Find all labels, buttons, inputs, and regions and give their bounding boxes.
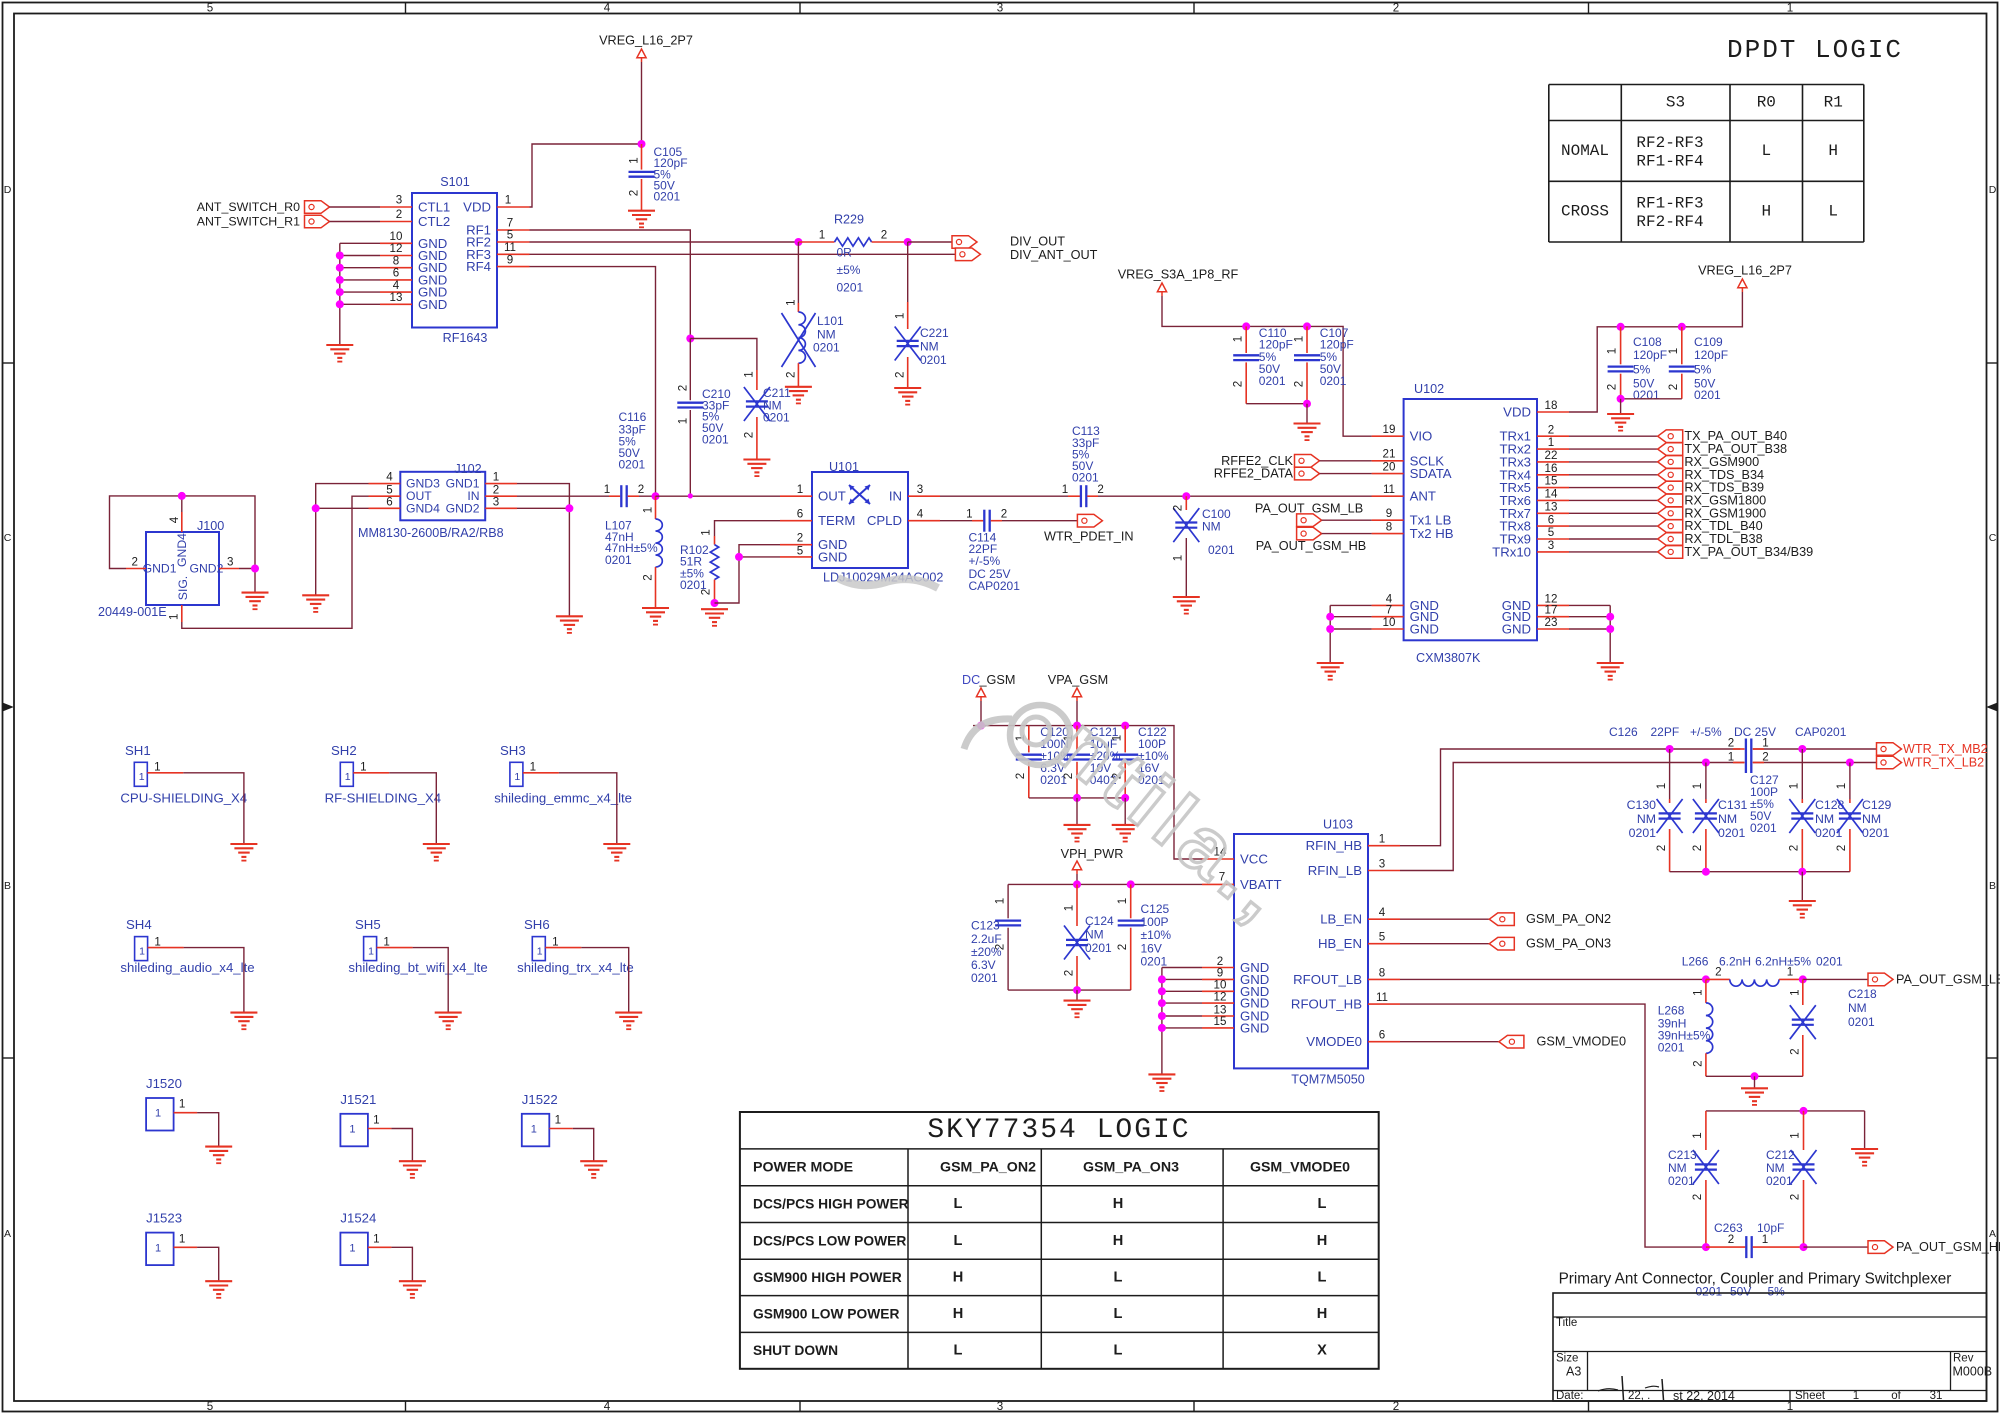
wire Tx1 LB <box>1322 519 1372 521</box>
svg-text:VREG_L16_2P7: VREG_L16_2P7 <box>1698 264 1792 278</box>
power VREG_L16_2P7 (right) <box>1698 264 1792 293</box>
ground U102 left <box>1317 663 1344 680</box>
svg-text:10: 10 <box>1383 616 1396 629</box>
svg-text:H: H <box>953 1306 964 1322</box>
svg-text:SDATA: SDATA <box>1410 466 1452 481</box>
svg-text:0201: 0201 <box>1766 1174 1793 1188</box>
capacitor C110 <box>1232 326 1293 404</box>
junction R229 pin2 <box>904 238 912 246</box>
svg-text:RX_TDL_B40: RX_TDL_B40 <box>1684 519 1762 533</box>
svg-text:0201: 0201 <box>605 553 632 567</box>
capacitor C105 <box>628 144 688 211</box>
svg-text:NM: NM <box>1862 812 1881 826</box>
svg-text:NM: NM <box>1668 1161 1687 1175</box>
wire J1524 <box>391 1247 412 1281</box>
svg-text:L: L <box>1318 1270 1327 1286</box>
svg-text:PA_OUT_GSM_HB: PA_OUT_GSM_HB <box>1896 1240 2000 1254</box>
junction node VDD/C105 <box>638 140 646 148</box>
svg-text:TX_PA_OUT_B34/B39: TX_PA_OUT_B34/B39 <box>1684 545 1813 559</box>
svg-text:10pF: 10pF <box>1757 1221 1784 1235</box>
svg-text:J1524: J1524 <box>340 1211 376 1226</box>
svg-text:GND2: GND2 <box>190 562 224 576</box>
svg-text:4: 4 <box>168 516 181 523</box>
connector tag RX_TDL_B38 <box>1658 532 1763 546</box>
wire C108/C109 bottom <box>1621 398 1682 400</box>
svg-text:2: 2 <box>1606 384 1619 390</box>
wire upper rail right <box>1733 748 1877 750</box>
svg-text:12: 12 <box>1214 990 1227 1003</box>
svg-text:SH3: SH3 <box>500 743 526 758</box>
ground L268/C218 <box>1741 1088 1768 1105</box>
svg-text:2: 2 <box>1393 2 1399 15</box>
svg-text:1: 1 <box>966 507 972 520</box>
connector J1524 <box>340 1211 391 1266</box>
svg-text:NM: NM <box>1202 520 1221 534</box>
svg-text:6: 6 <box>1548 513 1554 526</box>
svg-text:CAP0201: CAP0201 <box>1795 725 1847 739</box>
svg-text:J1520: J1520 <box>146 1076 182 1091</box>
ground SH5 <box>435 1013 462 1030</box>
svg-text:R1: R1 <box>1824 94 1843 112</box>
svg-text:0201: 0201 <box>1633 388 1660 402</box>
svg-text:Tx2 HB: Tx2 HB <box>1410 526 1454 541</box>
wire TRx8 <box>1569 525 1658 527</box>
svg-text:NM: NM <box>1637 812 1656 826</box>
svg-text:J102: J102 <box>454 462 481 476</box>
svg-text:2: 2 <box>1116 944 1129 950</box>
svg-text:2: 2 <box>396 208 402 221</box>
ground C123-C125 <box>1064 1001 1091 1018</box>
svg-text:120pF: 120pF <box>1694 348 1728 362</box>
connector tag WTR_TX_LB2 <box>1877 756 1985 770</box>
svg-text:SH1: SH1 <box>125 743 151 758</box>
svg-text:GND: GND <box>1410 622 1439 637</box>
junction C213 bottom <box>1702 1243 1710 1251</box>
svg-text:2: 2 <box>881 229 887 242</box>
wire C113 to ANT <box>1098 495 1372 497</box>
shield connector SH1 <box>125 743 183 787</box>
wire VDD rail <box>1569 292 1742 412</box>
svg-text:8: 8 <box>1386 521 1392 534</box>
capacitor C127 100P (series) <box>1728 751 1779 836</box>
svg-text:5: 5 <box>207 1400 213 1413</box>
svg-text:2: 2 <box>1001 507 1007 520</box>
svg-text:NM: NM <box>1848 1001 1867 1015</box>
capacitor C210 <box>677 339 732 496</box>
svg-text:0201: 0201 <box>619 458 646 472</box>
resistor R229 0R <box>798 213 907 295</box>
ground U103 <box>1148 1074 1175 1091</box>
ground C121 <box>1064 825 1091 842</box>
wire RFFE2_CLK <box>1320 460 1372 462</box>
svg-text:2: 2 <box>785 372 798 378</box>
svg-text:U102: U102 <box>1414 382 1444 396</box>
wire IN to C113 <box>940 495 1068 497</box>
connector J100 20449-001E <box>98 512 239 622</box>
capacitor C263 10pF <box>1696 1221 1804 1299</box>
svg-text:0201: 0201 <box>1658 1041 1685 1055</box>
ground C110/C107 <box>1294 424 1321 441</box>
svg-text:11: 11 <box>1376 991 1388 1004</box>
svg-text:SH2: SH2 <box>331 743 357 758</box>
power VREG_L16_2P7 (left) <box>599 34 693 63</box>
shield connector SH5 <box>355 917 413 961</box>
svg-text:9: 9 <box>1386 507 1392 520</box>
svg-text:1: 1 <box>628 157 641 163</box>
junction C110 <box>1242 322 1250 330</box>
wire RFIN_LB <box>1400 763 1744 871</box>
svg-text:U101: U101 <box>829 460 859 474</box>
wire J1520 <box>197 1113 219 1147</box>
svg-text:14: 14 <box>1545 488 1558 501</box>
svg-text:RFFE2_DATA: RFFE2_DATA <box>1214 467 1294 481</box>
wire RF2 to R229 <box>530 241 799 243</box>
connector tag RFFE2_DATA <box>1214 467 1320 481</box>
connector tag PA_OUT_GSM_LB (U102) <box>1255 502 1363 527</box>
capacitor C100 NM <box>1172 496 1236 597</box>
svg-text:2: 2 <box>1393 1400 1399 1413</box>
svg-text:2: 2 <box>1692 1060 1705 1066</box>
wire LB_EN <box>1400 918 1489 920</box>
svg-text:2: 2 <box>1293 381 1306 387</box>
svg-text:2: 2 <box>1172 505 1185 511</box>
svg-text:H: H <box>953 1270 964 1286</box>
capacitor C124 NM <box>1063 884 1115 990</box>
svg-text:RF1-RF4: RF1-RF4 <box>1636 153 1703 171</box>
capacitor C107 <box>1293 326 1354 404</box>
wire U101 gnds <box>715 545 781 603</box>
svg-text:SKY77354 LOGIC: SKY77354 LOGIC <box>927 1115 1190 1146</box>
ground L101 <box>785 387 812 404</box>
svg-text:2: 2 <box>638 483 644 496</box>
svg-text:1: 1 <box>797 483 803 496</box>
svg-text:1: 1 <box>1293 336 1306 342</box>
svg-text:HB_EN: HB_EN <box>1318 936 1362 951</box>
svg-text:IN: IN <box>889 489 902 504</box>
svg-text:1: 1 <box>154 761 160 774</box>
svg-text:GND: GND <box>1502 622 1531 637</box>
svg-text:8: 8 <box>393 254 399 267</box>
svg-text:C123: C123 <box>971 919 1000 933</box>
svg-text:3: 3 <box>997 1400 1003 1413</box>
svg-text:NM: NM <box>1766 1161 1785 1175</box>
svg-text:22PF: 22PF <box>1651 725 1680 739</box>
connector tag TX_PA_OUT_B40 <box>1658 429 1787 443</box>
ground J102 left <box>302 595 329 612</box>
svg-text:12: 12 <box>390 242 403 255</box>
svg-text:0201: 0201 <box>1718 826 1746 840</box>
junction DC_GSM <box>977 722 985 730</box>
connector tag GSM_PA_ON3 <box>1489 937 1611 951</box>
svg-text:5: 5 <box>507 229 513 242</box>
svg-text:1: 1 <box>179 1232 185 1245</box>
svg-text:CTL2: CTL2 <box>418 214 450 229</box>
wire TRx9 <box>1569 538 1658 540</box>
capacitor C130 NM <box>1627 749 1683 872</box>
svg-text:+/-5%: +/-5% <box>1690 725 1722 739</box>
svg-text:2: 2 <box>1691 1194 1704 1200</box>
wire SH4 <box>184 948 244 1013</box>
svg-text:ANT_SWITCH_R0: ANT_SWITCH_R0 <box>197 200 300 214</box>
svg-text:13: 13 <box>1545 500 1558 513</box>
ground SH4 <box>230 1013 257 1030</box>
ground SH6 <box>615 1013 642 1030</box>
ground J1522 <box>580 1161 607 1178</box>
svg-text:2: 2 <box>797 532 803 545</box>
svg-text:1: 1 <box>1548 436 1554 449</box>
connector J1521 <box>340 1092 391 1147</box>
svg-text:15: 15 <box>1545 475 1558 488</box>
title block <box>1553 1271 1992 1403</box>
svg-text:2: 2 <box>1789 1194 1802 1200</box>
svg-text:RFOUT_HB: RFOUT_HB <box>1291 997 1362 1012</box>
svg-text:3: 3 <box>997 2 1003 15</box>
svg-text:11: 11 <box>504 241 516 254</box>
wire U103 gnd bus <box>1158 968 1202 1075</box>
capacitor C120 <box>1014 725 1071 798</box>
svg-text:TQM7M5050: TQM7M5050 <box>1291 1073 1365 1087</box>
svg-text:GND4: GND4 <box>175 533 189 567</box>
power VREG_S3A_1P8_RF <box>1118 268 1239 297</box>
wire TRx5 <box>1569 487 1658 489</box>
svg-text:120pF: 120pF <box>1633 348 1667 362</box>
junction C121 top <box>1073 722 1081 730</box>
svg-text:C263: C263 <box>1714 1221 1743 1235</box>
svg-text:0201: 0201 <box>920 353 947 367</box>
svg-text:NM: NM <box>817 328 836 342</box>
wire J102 right gnds <box>517 484 573 617</box>
svg-text:SH6: SH6 <box>524 917 550 932</box>
svg-text:C218: C218 <box>1848 987 1877 1001</box>
svg-text:1: 1 <box>345 771 351 783</box>
svg-text:31: 31 <box>1930 1390 1943 1402</box>
svg-text:CROSS: CROSS <box>1561 203 1609 221</box>
wire C213/C212 top rail <box>1706 1107 1865 1149</box>
svg-text:A: A <box>4 1228 11 1240</box>
svg-text:U103: U103 <box>1323 818 1353 832</box>
svg-text:13: 13 <box>390 291 403 304</box>
svg-text:X: X <box>1317 1343 1327 1359</box>
svg-text:5: 5 <box>797 545 803 558</box>
capacitor C221 NM <box>893 302 949 388</box>
svg-text:L: L <box>954 1233 963 1249</box>
wire VREG_S3A rail <box>1162 296 1372 436</box>
capacitor C121 <box>1062 725 1121 798</box>
svg-text:6: 6 <box>386 495 392 508</box>
svg-text:GND2: GND2 <box>446 501 480 515</box>
connector tag WTR_PDET_IN <box>1044 514 1134 543</box>
svg-text:1: 1 <box>1379 833 1385 846</box>
svg-text:0201: 0201 <box>1320 374 1347 388</box>
svg-text:NM: NM <box>920 340 939 354</box>
svg-text:2: 2 <box>493 483 499 496</box>
svg-text:1: 1 <box>168 614 181 620</box>
wire C114 to WTR_PDET_IN <box>1002 520 1077 522</box>
inductor L107 <box>605 496 662 608</box>
svg-text:shileding_audio_x4_lte: shileding_audio_x4_lte <box>120 960 254 975</box>
junction C130 <box>1666 745 1674 753</box>
svg-text:OUT: OUT <box>818 489 846 504</box>
svg-text:GND: GND <box>1240 1020 1269 1035</box>
svg-text:VREG_L16_2P7: VREG_L16_2P7 <box>599 34 693 48</box>
connector tag GSM_PA_ON2 <box>1489 912 1611 926</box>
svg-text:H: H <box>1761 203 1771 221</box>
wire U102 left gnd bus <box>1326 605 1371 663</box>
svg-text:DIV_ANT_OUT: DIV_ANT_OUT <box>1010 248 1098 262</box>
svg-text:1: 1 <box>1063 905 1076 911</box>
connector tag GSM_VMODE0 <box>1499 1035 1626 1049</box>
wire C123-C125 bottom rail <box>1008 986 1131 1001</box>
svg-text:1: 1 <box>505 194 511 207</box>
svg-text:3: 3 <box>227 556 233 569</box>
resistor R102 51R <box>680 529 719 603</box>
svg-text:2: 2 <box>1762 751 1768 764</box>
capacitor C123 <box>971 884 1021 990</box>
svg-text:0201: 0201 <box>837 281 864 295</box>
svg-text:WTR_TX_MB2: WTR_TX_MB2 <box>1903 742 1988 756</box>
svg-text:CXM3807K: CXM3807K <box>1416 651 1481 665</box>
connector tag PA_OUT_GSM_LB (right) <box>1868 972 2000 986</box>
svg-text:C221: C221 <box>920 326 949 340</box>
svg-text:4: 4 <box>604 2 611 15</box>
watermark scribble U101 <box>838 578 938 588</box>
svg-text:1: 1 <box>360 761 366 774</box>
wire U102 right gnd bus <box>1569 605 1614 663</box>
connector tag RX_GSM1800 <box>1658 493 1767 507</box>
capacitor C218 NM <box>1789 979 1878 1076</box>
svg-text:1: 1 <box>700 529 713 535</box>
wire to PA_OUT_GSM_HB <box>1804 1246 1869 1248</box>
shield connector SH3 <box>500 743 559 787</box>
svg-text:GSM_PA_ON2: GSM_PA_ON2 <box>940 1159 1036 1175</box>
junction C129 <box>1846 759 1854 767</box>
svg-text:C: C <box>1989 532 1997 544</box>
ground C211 <box>743 460 770 477</box>
svg-text:VPH_PWR: VPH_PWR <box>1061 847 1124 861</box>
svg-text:1: 1 <box>531 1124 537 1136</box>
svg-text:±10%: ±10% <box>1141 928 1172 942</box>
svg-text:1: 1 <box>514 771 520 783</box>
svg-text:2.2uF: 2.2uF <box>971 932 1002 946</box>
svg-text:1: 1 <box>994 898 1007 904</box>
svg-text:C: C <box>4 532 12 544</box>
svg-text:L101: L101 <box>817 314 844 328</box>
svg-text:C213: C213 <box>1668 1148 1697 1162</box>
svg-text:RX_TDL_B38: RX_TDL_B38 <box>1684 532 1762 546</box>
svg-text:RFIN_LB: RFIN_LB <box>1308 863 1362 878</box>
wire RFOUT_LB <box>1400 978 1706 980</box>
svg-text:2: 2 <box>1667 384 1680 390</box>
svg-text:17: 17 <box>1545 604 1558 617</box>
svg-text:ANT_SWITCH_R1: ANT_SWITCH_R1 <box>197 215 300 229</box>
svg-text:DC: DC <box>962 673 980 687</box>
svg-text:6.2nH: 6.2nH <box>1719 954 1751 968</box>
svg-text:2: 2 <box>1097 483 1103 496</box>
svg-text:1: 1 <box>139 946 145 958</box>
svg-text:1: 1 <box>1667 348 1680 354</box>
svg-text:20: 20 <box>1383 461 1396 474</box>
wire to PA_OUT_GSM_LB <box>1803 978 1868 980</box>
svg-text:0201: 0201 <box>1750 821 1777 835</box>
svg-text:0201: 0201 <box>654 190 681 204</box>
svg-text:of: of <box>1891 1390 1901 1402</box>
svg-text:20449-001E: 20449-001E <box>98 605 167 619</box>
svg-text:16V: 16V <box>1141 942 1162 956</box>
ground SH1 <box>230 844 257 861</box>
svg-text:C124: C124 <box>1085 914 1114 928</box>
svg-text:RF2-RF3: RF2-RF3 <box>1636 134 1703 152</box>
svg-text:VDD: VDD <box>1503 405 1531 420</box>
svg-text:0201: 0201 <box>971 971 998 985</box>
svg-text:NOMAL: NOMAL <box>1561 142 1609 160</box>
svg-text:8: 8 <box>1379 966 1385 979</box>
connector tag WTR_TX_MB2 <box>1877 742 1988 756</box>
svg-text:shileding_bt_wifi_x4_lte: shileding_bt_wifi_x4_lte <box>348 960 487 975</box>
svg-text:6.3V: 6.3V <box>971 958 996 972</box>
svg-text:0201: 0201 <box>1848 1015 1875 1029</box>
svg-text:C108: C108 <box>1633 335 1662 349</box>
svg-text:DIV_OUT: DIV_OUT <box>1010 235 1065 249</box>
svg-text:J100: J100 <box>197 519 224 533</box>
svg-text:2: 2 <box>1788 845 1801 851</box>
wire ANT_SWITCH_R0 to CTL1 <box>330 206 381 208</box>
wire VCC rail <box>973 726 1202 859</box>
svg-text:PA_OUT_GSM_LB: PA_OUT_GSM_LB <box>1896 972 2000 986</box>
svg-text:5: 5 <box>386 483 392 496</box>
svg-text:21: 21 <box>1383 448 1396 461</box>
svg-text:2: 2 <box>1789 1048 1802 1054</box>
svg-text:DCS/PCS LOW POWER: DCS/PCS LOW POWER <box>753 1233 906 1248</box>
junction RF1/OUT <box>688 493 693 498</box>
svg-text:DC 25V: DC 25V <box>1734 725 1776 739</box>
svg-text:2: 2 <box>743 432 756 438</box>
wire to ground C107 <box>1306 404 1308 424</box>
svg-text:H: H <box>1113 1196 1124 1212</box>
svg-text:2: 2 <box>131 556 137 569</box>
capacitor C126 22PF (series) <box>1609 725 1847 773</box>
svg-text:4: 4 <box>917 508 924 521</box>
capacitor C114 22PF <box>966 507 1020 593</box>
capacitor C131 NM <box>1691 763 1747 872</box>
svg-text:0R: 0R <box>837 246 853 260</box>
svg-text:RFOUT_LB: RFOUT_LB <box>1293 972 1362 987</box>
svg-text:NM: NM <box>1718 812 1737 826</box>
wire TRx10 <box>1569 551 1658 553</box>
svg-text:RF1643: RF1643 <box>443 331 488 345</box>
ground J102 right <box>556 616 583 633</box>
connector J1520 <box>146 1076 197 1131</box>
svg-text:1: 1 <box>537 946 543 958</box>
svg-text:18: 18 <box>1545 399 1558 412</box>
svg-text:0201: 0201 <box>702 432 729 446</box>
svg-text:2: 2 <box>1232 381 1245 387</box>
svg-text:22: 22 <box>1545 449 1558 462</box>
svg-text:GSM900 HIGH POWER: GSM900 HIGH POWER <box>753 1270 902 1285</box>
ground C105 <box>628 211 655 228</box>
svg-text:1: 1 <box>349 1242 355 1254</box>
svg-text:VREG_S3A_1P8_RF: VREG_S3A_1P8_RF <box>1118 268 1239 282</box>
svg-text:RF4: RF4 <box>466 259 491 274</box>
svg-text:B: B <box>4 880 11 892</box>
svg-text:1: 1 <box>1062 483 1068 496</box>
svg-text:1: 1 <box>373 1114 379 1127</box>
svg-text:1: 1 <box>1692 989 1705 995</box>
svg-text:TX_PA_OUT_B40: TX_PA_OUT_B40 <box>1684 429 1787 443</box>
svg-text:D: D <box>4 184 12 196</box>
svg-text:Date:: Date: <box>1556 1390 1584 1402</box>
capacitor C212 NM <box>1766 1111 1817 1247</box>
svg-text:100P: 100P <box>1141 915 1169 929</box>
